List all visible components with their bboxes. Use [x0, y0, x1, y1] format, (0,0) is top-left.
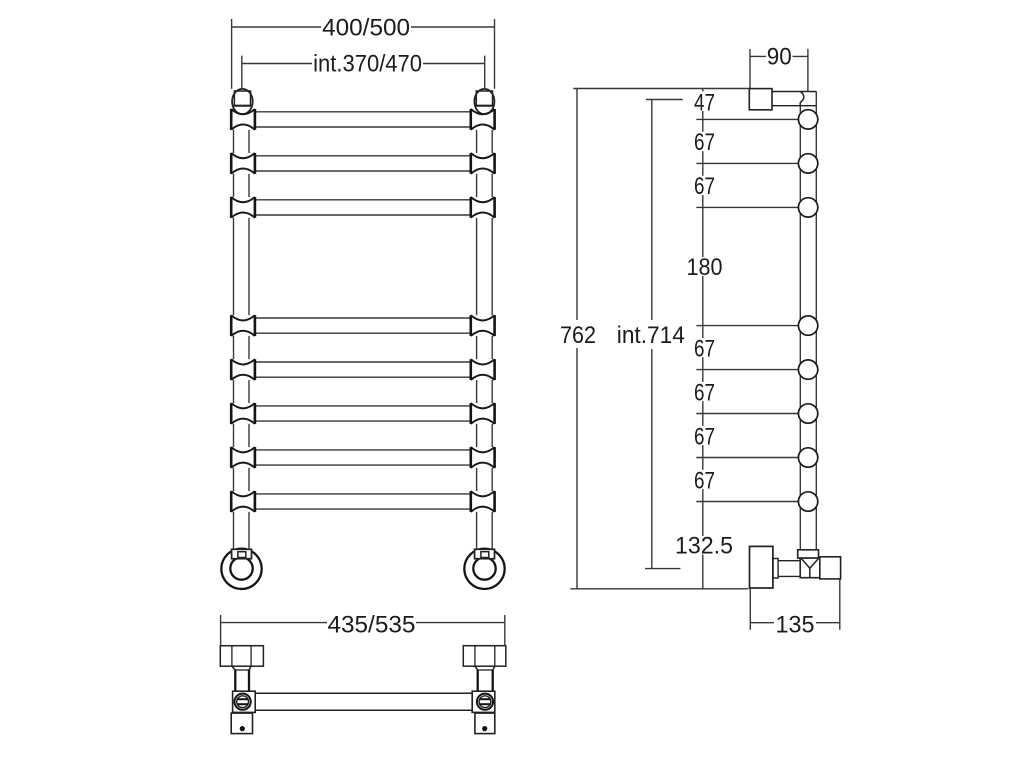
svg-text:67: 67 [694, 423, 715, 450]
svg-text:132.5: 132.5 [675, 532, 733, 559]
svg-text:67: 67 [694, 467, 715, 494]
svg-text:762: 762 [560, 322, 596, 349]
svg-text:90: 90 [767, 44, 792, 71]
svg-text:400/500: 400/500 [322, 14, 410, 41]
svg-text:47: 47 [694, 89, 715, 116]
svg-text:180: 180 [687, 254, 723, 281]
svg-text:int.714: int.714 [617, 322, 685, 349]
svg-text:435/535: 435/535 [327, 611, 415, 638]
svg-text:67: 67 [694, 129, 715, 156]
svg-text:int.370/470: int.370/470 [313, 50, 422, 77]
svg-text:67: 67 [694, 335, 715, 362]
svg-text:67: 67 [694, 173, 715, 200]
svg-text:67: 67 [694, 379, 715, 406]
svg-text:135: 135 [775, 612, 814, 639]
